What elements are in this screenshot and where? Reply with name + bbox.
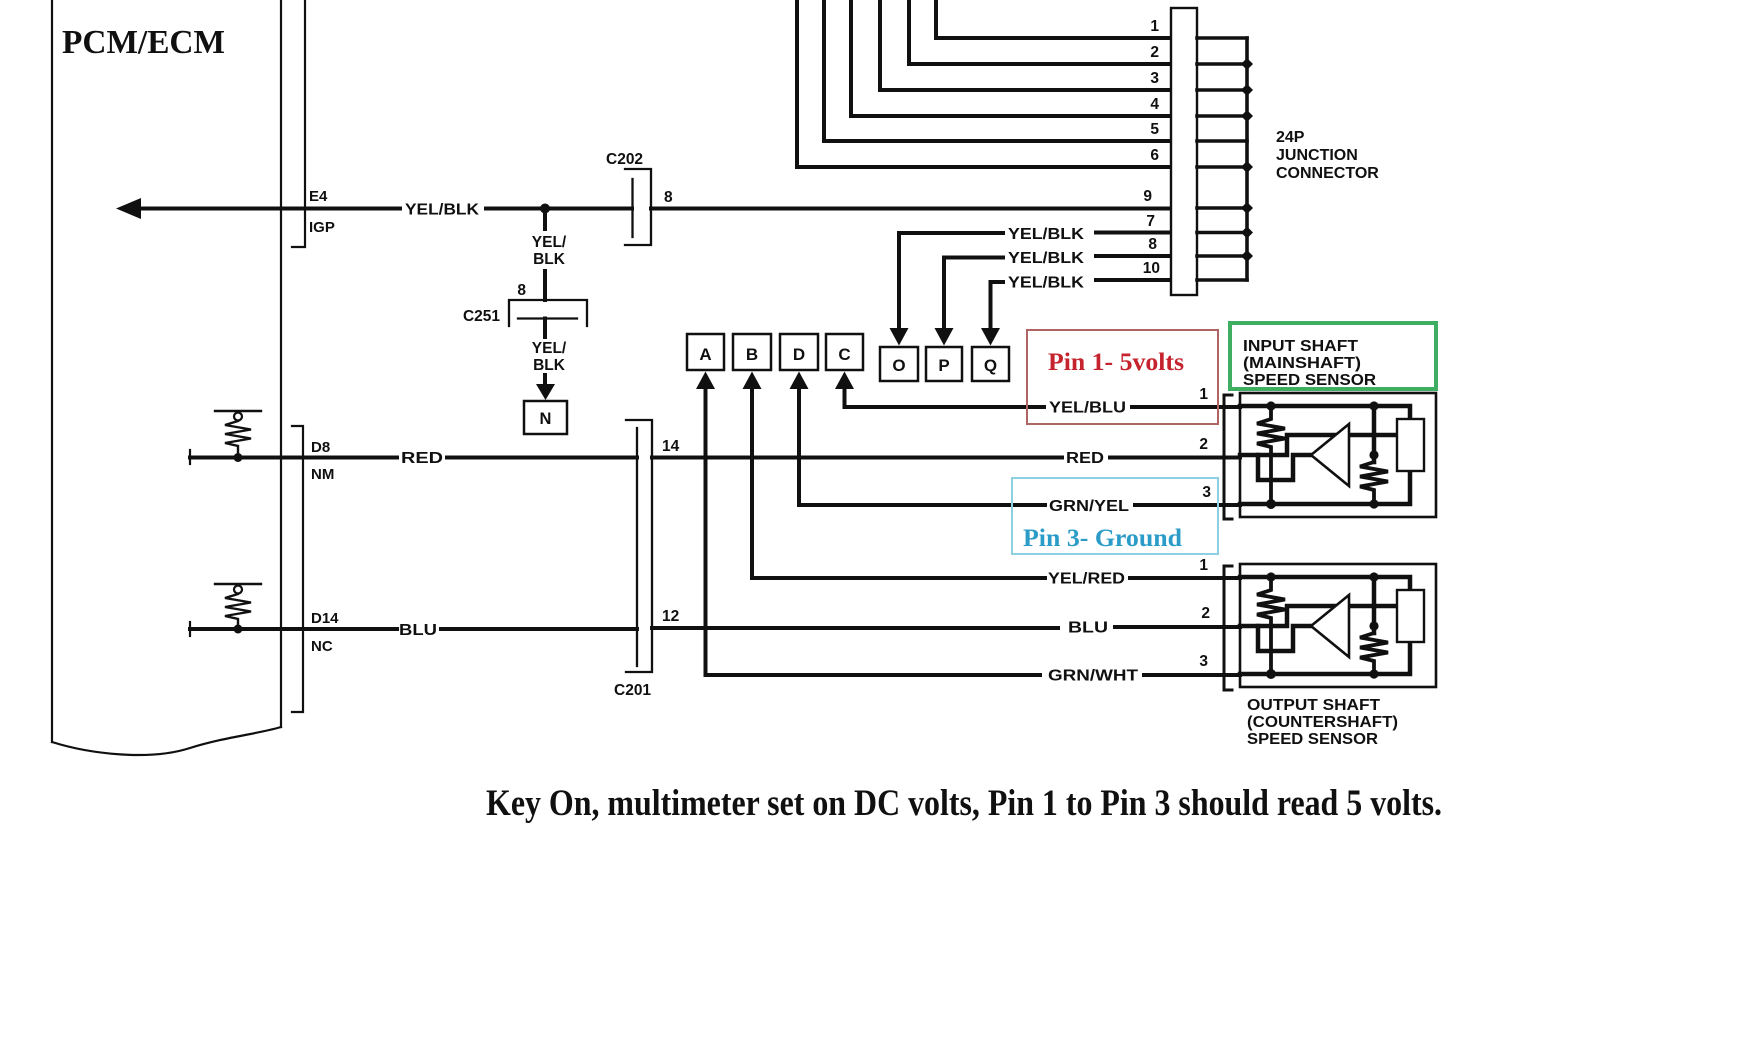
- connector bracket D8/D14: [292, 426, 303, 712]
- 24P junction connector body: [1171, 8, 1197, 295]
- svg-text:BLU: BLU: [399, 622, 437, 639]
- svg-text:BLK: BLK: [533, 357, 566, 374]
- svg-text:D: D: [793, 345, 805, 364]
- wire NC stub tick: [189, 622, 191, 636]
- svg-text:12: 12: [662, 608, 679, 625]
- PCM/ECM torn bottom edge: [52, 727, 281, 755]
- svg-text:2: 2: [1201, 605, 1210, 622]
- arrow into PCM (IGP): [116, 198, 141, 219]
- output sensor connector bracket: [1224, 566, 1232, 690]
- wire A to GRN/WHT: [706, 388, 1041, 675]
- junction connector comb pin 5: [1197, 139, 1247, 143]
- wire B to YEL/RED: [752, 388, 1045, 578]
- svg-text:CONNECTOR: CONNECTOR: [1276, 165, 1379, 182]
- node junction dot: [540, 204, 550, 214]
- svg-text:B: B: [746, 345, 758, 364]
- node dots U2: [1266, 572, 1275, 581]
- wire U2 output link: [1349, 604, 1397, 609]
- svg-text:YEL/: YEL/: [532, 234, 567, 251]
- wire U2 right vertical: [1372, 577, 1377, 633]
- U1 top rail pin1 net: [1240, 406, 1410, 419]
- annotation green box input sensor title: [1230, 323, 1436, 389]
- junction connector comb pin 7: [1197, 231, 1247, 235]
- svg-text:INPUT SHAFT: INPUT SHAFT: [1243, 338, 1358, 355]
- node box P: [926, 347, 962, 381]
- junction connector comb pin 3: [1197, 88, 1247, 92]
- svg-text:NC: NC: [311, 638, 333, 655]
- arrowhead into O: [890, 328, 909, 346]
- annotation blue box Pin 3: [1012, 478, 1218, 554]
- node dot R1: [234, 453, 243, 462]
- junction connector comb pin 9: [1197, 206, 1247, 210]
- U1 bottom rail pin3 net: [1240, 471, 1410, 504]
- U2 top rail pin1 net: [1240, 577, 1410, 590]
- junction connector comb pin 10: [1197, 278, 1247, 282]
- resistor U1-R1: [1257, 406, 1285, 504]
- svg-text:PCM/ECM: PCM/ECM: [62, 24, 225, 61]
- connector C201: [626, 420, 652, 672]
- svg-text:Key On, multimeter set on DC v: Key On, multimeter set on DC volts, Pin …: [486, 783, 1442, 824]
- svg-text:YEL/BLU: YEL/BLU: [1049, 400, 1126, 417]
- wire YEL/BLK vertical branch: [543, 212, 547, 300]
- svg-text:OUTPUT SHAFT: OUTPUT SHAFT: [1247, 697, 1380, 714]
- wire BLU D14 row: [190, 627, 1240, 629]
- svg-text:C201: C201: [614, 682, 651, 699]
- svg-text:7: 7: [1146, 213, 1155, 230]
- svg-text:1: 1: [1150, 18, 1159, 35]
- resistor U2-R3 box: [1397, 590, 1424, 642]
- svg-text:YEL/: YEL/: [532, 340, 567, 357]
- PCM/ECM box right edge: [280, 0, 282, 727]
- svg-text:E4: E4: [309, 188, 328, 205]
- svg-text:GRN/WHT: GRN/WHT: [1048, 668, 1138, 685]
- U1 pin2 s-jog wire: [1258, 455, 1312, 480]
- bus junction diamond 3: [1241, 84, 1253, 96]
- PCM/ECM box left edge: [51, 0, 53, 742]
- svg-text:BLU: BLU: [1068, 620, 1108, 637]
- svg-text:C251: C251: [463, 308, 500, 325]
- svg-text:(MAINSHAFT): (MAINSHAFT): [1243, 355, 1361, 372]
- wire YEL/BLK E4 to junction pin 9: [139, 207, 1171, 211]
- node box O: [880, 347, 918, 381]
- svg-text:RED: RED: [401, 450, 443, 467]
- junction connector comb pin 4: [1197, 114, 1247, 118]
- svg-text:YEL/BLK: YEL/BLK: [1008, 226, 1084, 243]
- op-amp U2: [1311, 595, 1349, 657]
- U1 pin2 wire: [1240, 435, 1338, 455]
- svg-text:2: 2: [1150, 44, 1159, 61]
- svg-text:1: 1: [1199, 386, 1208, 403]
- svg-text:Q: Q: [984, 356, 997, 375]
- resistor U2-R2: [1360, 633, 1388, 674]
- svg-text:14: 14: [662, 438, 680, 455]
- svg-text:8: 8: [1148, 236, 1157, 253]
- wire harness vertical 4: [851, 0, 1171, 116]
- svg-text:YEL/BLK: YEL/BLK: [1008, 250, 1084, 267]
- wire YEL/BLK to P: [944, 258, 1003, 331]
- svg-text:8: 8: [517, 282, 526, 299]
- output sensor U2 outer box: [1240, 564, 1436, 687]
- svg-text:3: 3: [1202, 484, 1211, 501]
- resistor U2-R1: [1257, 577, 1285, 674]
- U2 bottom rail pin3 net: [1240, 642, 1410, 674]
- svg-text:9: 9: [1143, 188, 1152, 205]
- input sensor U1 outer box: [1240, 393, 1436, 517]
- junction connector comb pin 2: [1197, 62, 1247, 66]
- svg-text:IGP: IGP: [309, 219, 335, 236]
- svg-text:GRN/YEL: GRN/YEL: [1049, 498, 1129, 515]
- arrowhead into A: [696, 372, 715, 390]
- connector C251: [509, 300, 587, 326]
- annotation red box Pin 1: [1027, 330, 1218, 424]
- wire YEL/BLK to node N: [543, 319, 547, 387]
- node box A: [687, 334, 724, 370]
- svg-text:5: 5: [1150, 121, 1159, 138]
- node box B: [733, 334, 771, 370]
- svg-text:3: 3: [1150, 70, 1159, 87]
- node N box: [524, 401, 567, 434]
- junction connector bus bar: [1245, 38, 1249, 280]
- node box Q: [972, 347, 1009, 381]
- svg-text:8: 8: [664, 189, 673, 206]
- arrowhead into C: [835, 372, 854, 390]
- svg-text:NM: NM: [311, 466, 334, 483]
- junction connector comb pin 1: [1197, 36, 1247, 40]
- node box D: [780, 334, 818, 370]
- wire U1 output link: [1349, 433, 1397, 438]
- resistor R1 inside PCM: [215, 410, 261, 412]
- svg-text:RED: RED: [1066, 450, 1104, 467]
- svg-text:N: N: [540, 410, 552, 428]
- bus junction diamond 8: [1241, 250, 1253, 262]
- svg-text:D14: D14: [311, 610, 339, 627]
- arrowhead into D: [790, 372, 809, 390]
- wire U1 right vertical: [1372, 406, 1377, 462]
- wire harness vertical 2: [909, 0, 1171, 64]
- wire YEL/BLK to O: [899, 233, 1003, 330]
- wire harness vertical 3: [880, 0, 1171, 90]
- wire D to GRN/YEL: [799, 388, 1045, 505]
- svg-text:BLK: BLK: [533, 251, 566, 268]
- node box C: [826, 334, 863, 370]
- svg-text:P: P: [938, 356, 949, 375]
- U2 pin2 wire: [1240, 606, 1338, 626]
- svg-text:4: 4: [1150, 96, 1159, 113]
- svg-text:10: 10: [1143, 260, 1160, 277]
- svg-text:6: 6: [1150, 147, 1159, 164]
- junction connector comb pin 6: [1197, 165, 1247, 169]
- svg-text:24P: 24P: [1276, 129, 1305, 146]
- bus junction diamond 9: [1241, 202, 1253, 214]
- connector C202: [625, 169, 651, 245]
- resistor U1-R2: [1360, 462, 1388, 504]
- svg-text:YEL/RED: YEL/RED: [1048, 571, 1125, 588]
- arrowhead into N: [536, 384, 555, 400]
- arrowhead into B: [743, 372, 762, 390]
- wire RED D8 row: [190, 456, 1240, 460]
- arrowhead into P: [935, 328, 954, 346]
- resistor U1-R3 box: [1397, 419, 1424, 471]
- arrowhead into Q: [981, 328, 1000, 346]
- wire NM stub tick: [189, 450, 191, 464]
- bus junction diamond 6: [1241, 161, 1253, 173]
- svg-text:C: C: [838, 345, 850, 364]
- wire harness vertical 1: [936, 0, 1171, 38]
- wire C to YEL/BLU: [845, 388, 1045, 407]
- connector bracket E4: [292, 0, 305, 247]
- U2 pin2 s-jog wire: [1258, 626, 1312, 651]
- bus junction diamond 2: [1241, 58, 1253, 70]
- input sensor connector bracket: [1224, 395, 1232, 519]
- svg-text:(COUNTERSHAFT): (COUNTERSHAFT): [1247, 714, 1398, 731]
- bus junction diamond 4: [1241, 110, 1253, 122]
- svg-text:Pin 1- 5volts: Pin 1- 5volts: [1048, 349, 1184, 376]
- svg-text:JUNCTION: JUNCTION: [1276, 147, 1358, 164]
- svg-text:Pin 3- Ground: Pin 3- Ground: [1023, 525, 1182, 552]
- svg-text:2: 2: [1199, 436, 1208, 453]
- wire harness vertical 6: [797, 0, 1171, 167]
- svg-text:YEL/BLK: YEL/BLK: [1008, 275, 1084, 292]
- svg-text:O: O: [892, 356, 905, 375]
- resistor R2 inside PCM: [215, 583, 261, 585]
- wire YEL/BLK to Q: [991, 282, 1004, 330]
- svg-text:SPEED SENSOR: SPEED SENSOR: [1243, 372, 1376, 389]
- svg-text:A: A: [699, 345, 711, 364]
- svg-text:1: 1: [1199, 557, 1208, 574]
- svg-text:D8: D8: [311, 439, 330, 456]
- node dot R2: [234, 625, 243, 634]
- node dots U1: [1266, 401, 1275, 410]
- op-amp U1: [1311, 424, 1349, 486]
- junction connector comb pin 8: [1197, 254, 1247, 258]
- svg-text:C202: C202: [606, 151, 643, 168]
- wire harness vertical 5: [824, 0, 1171, 141]
- svg-text:YEL/BLK: YEL/BLK: [405, 202, 479, 219]
- bus junction diamond 7: [1241, 227, 1253, 239]
- svg-text:SPEED SENSOR: SPEED SENSOR: [1247, 731, 1378, 748]
- svg-text:3: 3: [1199, 653, 1208, 670]
